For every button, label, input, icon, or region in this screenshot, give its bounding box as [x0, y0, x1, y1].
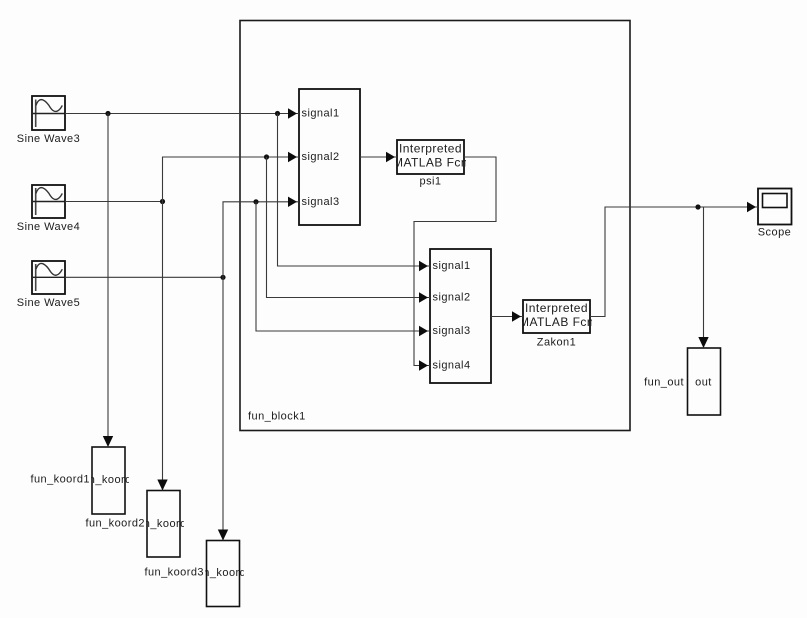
block fun_koord2 [85, 491, 193, 558]
svg-text:Interpreted: Interpreted [399, 142, 462, 156]
wire psi1 output loop to mux2 signal4 [414, 157, 496, 371]
junction dot SW3 branch2 [275, 111, 280, 116]
svg-text:fun_koord2: fun_koord2 [85, 518, 145, 530]
junction dot SW3 branch1 [105, 111, 110, 116]
svg-text:signal2: signal2 [433, 292, 471, 304]
wire SW5 down to fun_koord3 [218, 277, 228, 540]
subsystem box fun_block1 [240, 21, 630, 431]
wire SW5 up and right to mux1 signal3 [223, 197, 299, 278]
svg-text:out: out [695, 377, 712, 389]
block psi1 (Interpreted MATLAB Fcn) [393, 140, 468, 188]
block fun_koord1 [30, 447, 138, 514]
wire SW3 branch down to fun_koord1 [103, 114, 113, 448]
svg-text:fun_out: fun_out [644, 377, 684, 389]
block fun_koord3 [144, 541, 252, 607]
block fun_out [644, 348, 720, 415]
svg-text:Scope: Scope [758, 227, 791, 239]
svg-text:fun_koord3: fun_koord3 [144, 567, 204, 579]
svg-text:Sine Wave3: Sine Wave3 [17, 133, 80, 145]
junction dot SW4 [160, 199, 165, 204]
block Sine Wave5 [17, 261, 80, 309]
block Zakon1 (Interpreted MATLAB Fcn) [519, 300, 594, 349]
svg-text:Zakon1: Zakon1 [537, 337, 576, 349]
svg-text:signal1: signal1 [433, 260, 471, 272]
wire SW4 up and right to mux1 signal2 [163, 152, 300, 202]
wire SW3 branch to mux2 signal1 [278, 114, 431, 272]
junction dot signal2 branch [264, 154, 269, 159]
svg-text:signal3: signal3 [302, 196, 340, 208]
wire signal2 branch to mux2 signal2 [267, 157, 431, 303]
junction dot signal3 branch [253, 199, 258, 204]
wire branch down to fun_out [698, 208, 708, 349]
wire mux2 output to Zakon1 [491, 311, 523, 321]
junction dot scope branch [695, 204, 700, 209]
wire Sine Wave5 to junction [65, 276, 223, 278]
svg-text:signal4: signal4 [433, 360, 471, 372]
svg-text:signal3: signal3 [433, 325, 471, 337]
svg-text:Sine Wave5: Sine Wave5 [17, 297, 80, 309]
svg-text:signal2: signal2 [302, 151, 340, 163]
svg-text:MATLAB Fcn: MATLAB Fcn [393, 156, 468, 170]
svg-text:fun_block1: fun_block1 [248, 411, 306, 423]
block Sine Wave3 [17, 96, 80, 145]
junction dot SW5 [220, 275, 225, 280]
svg-text:Interpreted: Interpreted [525, 301, 588, 315]
wire Zakon1 output to Scope [590, 202, 758, 317]
svg-text:Sine Wave4: Sine Wave4 [17, 221, 80, 233]
block mux subsystem1 (signal1-3) [299, 89, 360, 225]
block mux subsystem2 (signal1-4) [430, 249, 491, 383]
wire signal3 branch to mux2 signal3 [256, 202, 430, 336]
wire SW4 down to fun_koord2 [157, 202, 167, 491]
wire Sine Wave3 to signal1 [65, 108, 299, 118]
svg-text:psi1: psi1 [420, 176, 442, 188]
svg-text:signal1: signal1 [302, 108, 340, 120]
block Scope [758, 189, 792, 239]
svg-text:MATLAB Fcn: MATLAB Fcn [519, 315, 594, 329]
block Sine Wave4 [17, 185, 80, 233]
wire Sine Wave4 to junction [65, 201, 162, 203]
svg-text:fun_koord1: fun_koord1 [30, 474, 90, 486]
wire mux1 output to psi1 [360, 152, 397, 162]
